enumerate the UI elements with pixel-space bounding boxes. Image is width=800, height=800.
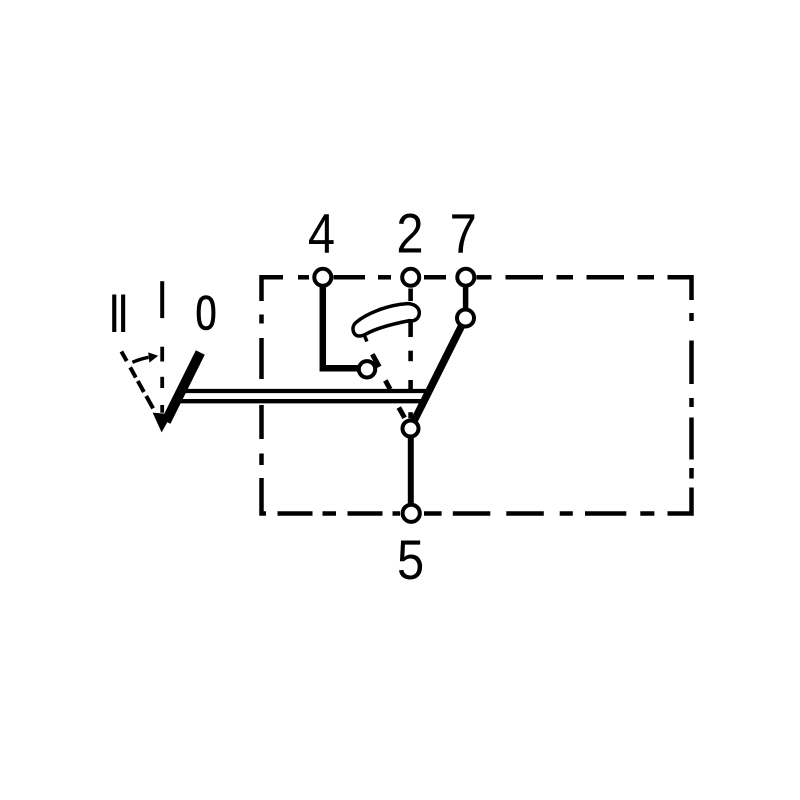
wire moving contact down to terminal 5 [408,437,414,504]
small return arrow II to I [132,357,148,362]
lever arrowhead [153,413,172,433]
enclosure dash-dot box: right edge [668,277,692,478]
curved arrow tail tick [364,335,367,342]
dashed lever position I line [160,347,164,413]
contact 7 lower circle [457,310,474,327]
svg-text:7: 7 [450,204,477,266]
svg-text:5: 5 [397,530,424,592]
terminal 2 circle [402,269,419,286]
svg-text:4: 4 [308,204,335,266]
dashed lever position II line [121,352,153,409]
svg-text:2: 2 [396,204,423,266]
actuator lever (solid, position 0) [166,353,200,422]
moving contact circle [403,421,419,437]
enclosure dash-dot box: left edge [262,315,267,514]
contact bridge double line [181,389,430,393]
curved outline arrow (rotation) [353,304,419,336]
label II [112,295,125,333]
dashed line under terminal 2 [408,289,413,419]
terminal 4 circle [314,269,331,286]
enclosure dash-dot box: bottom edge [278,488,692,514]
label I [160,281,164,318]
dashed diagonal alternate-position line to moving contact [372,354,404,418]
wire terminal 7 to pivot contact [463,286,469,309]
terminal 7 circle [457,269,474,286]
enclosure dash-dot box: top edge [262,277,655,301]
fixed contact circle (from 4) [359,361,375,377]
wire from terminal 4 down and right to fixed contact [323,284,358,368]
terminal 5 circle [403,505,420,522]
label 0 [199,297,214,328]
switch blade from contact 7 down to moving contact [413,324,463,424]
